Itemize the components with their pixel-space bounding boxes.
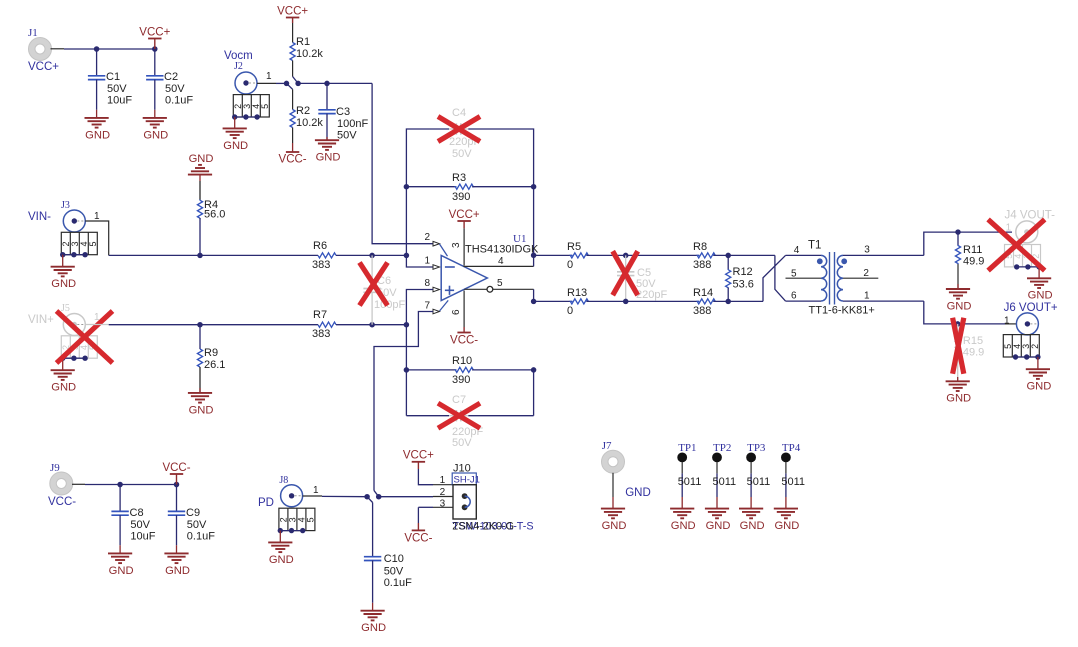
svg-text:3: 3 (451, 242, 462, 248)
svg-text:VCC-: VCC- (404, 532, 432, 544)
svg-text:R15: R15 (963, 335, 983, 347)
svg-text:VCC+: VCC+ (277, 5, 308, 17)
svg-text:0.1uF: 0.1uF (165, 95, 193, 107)
svg-text:4: 4 (794, 245, 800, 256)
wire J5 pin1 grey (85, 312, 108, 325)
J2 pins 2-4 junction dots (232, 114, 260, 119)
node junction C6 bottom (369, 322, 375, 328)
svg-text:R12: R12 (733, 266, 753, 278)
svg-text:GND: GND (1026, 381, 1051, 393)
svg-text:390: 390 (452, 374, 470, 386)
wire VCC+ to J10 pin1 (418, 469, 453, 485)
svg-text:VIN-: VIN- (28, 211, 51, 223)
svg-text:GND: GND (109, 565, 134, 577)
wire jog to pin1 (406, 255, 433, 267)
capacitor C4 not populated (449, 107, 480, 160)
svg-text:GND: GND (625, 487, 651, 499)
svg-text:GND: GND (143, 129, 168, 141)
ground below J6 (1026, 357, 1052, 393)
power VCC+ above U1 pin3 (449, 209, 480, 229)
resistor R6 383 (312, 240, 336, 271)
node junction C5 bottom (623, 299, 629, 305)
svg-text:VCC+: VCC+ (449, 209, 480, 221)
red X over C5 (613, 251, 638, 295)
ground below R15 (946, 377, 972, 405)
node junction R4 on VIN- bus (197, 253, 203, 259)
svg-text:C9: C9 (186, 507, 200, 519)
svg-text:C4: C4 (452, 107, 466, 119)
ground below TP1 (670, 497, 696, 532)
svg-text:J6 VOUT+: J6 VOUT+ (1004, 302, 1058, 314)
wire C4 loop (406, 129, 533, 187)
svg-text:56.0: 56.0 (204, 209, 225, 221)
resistor R1 10.2k (290, 23, 323, 77)
svg-text:GND: GND (774, 520, 799, 532)
svg-text:R2: R2 (296, 105, 310, 117)
U1 pin 4 output (464, 255, 534, 267)
wire C7 loop (406, 367, 536, 416)
svg-text:49.9: 49.9 (963, 347, 984, 359)
ground below C8 (108, 545, 134, 577)
svg-text:GND: GND (269, 554, 294, 566)
capacitor C8 (111, 485, 155, 546)
wire PD bus to J10 pin2 (379, 496, 453, 498)
resistor R13 0 (567, 287, 588, 317)
svg-text:5011: 5011 (747, 476, 771, 488)
J2 pin box (233, 95, 270, 117)
J8 pin box (278, 508, 315, 530)
test point TP2 (712, 442, 736, 497)
svg-text:10.2k: 10.2k (296, 48, 323, 60)
J5 pins 2-4 junction dots (60, 356, 88, 361)
wire J8 pin1 (303, 485, 368, 497)
wire R13 to C5 (586, 300, 699, 302)
svg-text:J3: J3 (61, 200, 70, 211)
wire Vocm node to C3 (298, 82, 372, 84)
svg-text:THS4130IDGK: THS4130IDGK (465, 244, 539, 256)
svg-text:GND: GND (51, 278, 76, 290)
svg-text:R5: R5 (567, 241, 581, 253)
wire J9 to VCC- node (72, 483, 177, 485)
U1 pin 8 arrow (424, 278, 439, 292)
svg-text:GND: GND (946, 393, 971, 405)
svg-text:GND: GND (223, 140, 248, 152)
svg-text:R7: R7 (313, 309, 327, 321)
svg-text:J1: J1 (28, 27, 38, 39)
test point TP1 (677, 442, 701, 497)
wire J6 pins to ground (1016, 356, 1038, 358)
svg-text:5011: 5011 (678, 476, 702, 488)
svg-text:1: 1 (440, 475, 446, 486)
svg-text:GND: GND (1028, 290, 1053, 302)
svg-text:VCC+: VCC+ (403, 450, 434, 462)
J3 pin box (61, 232, 98, 254)
svg-text:5011: 5011 (713, 476, 737, 488)
svg-text:GND: GND (602, 520, 627, 532)
wire VCC- to J10 pin3 (418, 507, 453, 523)
wire R6 to op-amp (336, 254, 406, 256)
wire cross top to T1 pin6 (775, 255, 786, 301)
resistor R8 388 (693, 241, 715, 271)
svg-text:5: 5 (305, 517, 315, 522)
J8 pins 2-4 junction dots (278, 528, 306, 533)
wire R3 loop left (404, 184, 410, 255)
svg-text:VCC-: VCC- (450, 335, 478, 347)
connector J10 header (440, 463, 480, 520)
U1 pin 3 (451, 228, 464, 265)
svg-text:GND: GND (947, 300, 972, 312)
red X over J4 (988, 219, 1045, 270)
svg-text:50V: 50V (130, 519, 150, 531)
svg-text:49.9: 49.9 (963, 256, 984, 268)
svg-text:3: 3 (440, 499, 446, 510)
connector J5 VIN+ not populated (28, 303, 85, 336)
svg-text:VCC-: VCC- (162, 462, 190, 474)
wire Vocm to op-amp pin2 (372, 83, 433, 243)
svg-text:R11: R11 (963, 244, 982, 256)
wire output- to R13 (534, 300, 573, 302)
svg-text:50V: 50V (165, 83, 185, 95)
wire R5 to C5 (586, 254, 699, 256)
svg-text:C2: C2 (164, 71, 178, 83)
svg-text:10.2k: 10.2k (296, 117, 323, 129)
svg-text:100pF: 100pF (374, 299, 405, 311)
svg-text:GND: GND (51, 382, 76, 394)
ground below C9 (164, 545, 190, 577)
wire J5 pins to ground (63, 357, 85, 359)
node junction op-amp pin1 net (404, 253, 410, 259)
connector J7 (602, 440, 651, 499)
red X over J5 (57, 311, 113, 363)
svg-text:GND: GND (189, 404, 214, 416)
resistor R7 383 (312, 309, 336, 340)
svg-text:J5: J5 (61, 303, 70, 314)
svg-text:GND: GND (316, 152, 341, 164)
J6 pin box (1003, 335, 1040, 357)
node junction C5 top (623, 253, 629, 259)
power VCC+ at C2 (139, 26, 170, 49)
svg-text:T1: T1 (808, 240, 821, 252)
svg-text:GND: GND (85, 129, 110, 141)
svg-text:6: 6 (791, 291, 797, 302)
svg-text:1: 1 (424, 256, 430, 267)
svg-text:383: 383 (312, 328, 330, 340)
svg-text:5: 5 (88, 241, 98, 246)
svg-text:388: 388 (693, 259, 711, 271)
svg-text:VIN+: VIN+ (28, 314, 54, 326)
power VCC- at J10 (404, 523, 432, 544)
svg-text:VCC-: VCC- (48, 496, 76, 508)
svg-text:383: 383 (312, 259, 330, 271)
capacitor C7 not populated (449, 394, 483, 449)
svg-text:3: 3 (864, 245, 870, 256)
connector J2 Vocm (224, 50, 257, 94)
PD net jog junction (364, 491, 381, 503)
ground below J7 (601, 497, 627, 532)
connector J6 VOUT+ (1004, 302, 1058, 335)
svg-text:SH-J1: SH-J1 (454, 475, 480, 486)
node junction pin8 bus (404, 322, 410, 328)
ground below TP3 (739, 497, 765, 532)
svg-text:50V: 50V (452, 148, 472, 160)
resistor R15 not populated (955, 324, 984, 381)
red X over R15 (953, 318, 964, 374)
resistor R11 49.9 (955, 232, 984, 289)
svg-text:TT1-6-KK81+: TT1-6-KK81+ (809, 305, 875, 317)
wire R14 to R12 (713, 300, 763, 302)
svg-text:50V: 50V (337, 130, 357, 142)
svg-text:0.1uF: 0.1uF (384, 577, 412, 589)
wire J3 pins to ground (63, 254, 85, 256)
wire VIN+ bus (109, 324, 318, 326)
node junction output- R10 (531, 299, 537, 305)
J4 pin box not populated (1004, 245, 1041, 267)
ground below R11 (946, 284, 972, 312)
svg-text:J7: J7 (602, 440, 612, 452)
svg-text:5: 5 (497, 278, 503, 289)
ground below J5 (51, 358, 77, 393)
wire J8 pins to ground (280, 530, 302, 532)
svg-text:10uF: 10uF (130, 531, 155, 543)
svg-text:2SN4-2K0-G: 2SN4-2K0-G (452, 521, 514, 533)
node junction output+ R3 (531, 253, 537, 258)
wire cross bottom to T1 pin4 (763, 255, 786, 301)
power VCC- below R2 (279, 143, 307, 165)
connector J4 VOUT- not populated (1005, 209, 1056, 243)
svg-text:J8: J8 (279, 475, 288, 486)
svg-text:TP3: TP3 (747, 442, 766, 454)
ground below C3 (315, 137, 341, 164)
svg-text:0.1uF: 0.1uF (187, 531, 215, 543)
node junction R12 bottom (725, 299, 731, 305)
ground below TP2 (705, 497, 731, 532)
svg-text:220pF: 220pF (636, 289, 667, 301)
node junction C1 (94, 46, 100, 52)
svg-text:7: 7 (424, 301, 430, 312)
wire T1 pin3 to R11 node (924, 232, 1012, 255)
test point TP3 (746, 442, 770, 497)
node junction C3 (324, 81, 330, 87)
power VCC- at C9 (162, 462, 190, 485)
svg-text:5: 5 (791, 269, 797, 280)
U1 pin 1 arrow (424, 256, 439, 270)
svg-text:4: 4 (498, 256, 504, 267)
svg-text:0: 0 (567, 259, 573, 271)
svg-text:J2: J2 (234, 61, 243, 72)
wire R8 to R12 (713, 254, 775, 256)
connector J1 (28, 27, 59, 73)
ground above R4 (188, 153, 214, 181)
wire op-amp pin8 to VIN+ bus (406, 290, 433, 325)
svg-text:5011: 5011 (781, 476, 805, 488)
svg-text:PD: PD (258, 497, 274, 509)
svg-text:R14: R14 (693, 287, 713, 299)
svg-text:C10: C10 (384, 553, 404, 565)
svg-text:J9: J9 (50, 462, 60, 474)
wire VIN- bus (109, 254, 318, 256)
U1 pin 6 (451, 291, 464, 328)
ground below C1 (85, 110, 111, 142)
svg-text:50V: 50V (187, 519, 207, 531)
wire J2 pins to ground (235, 116, 257, 118)
svg-text:TP2: TP2 (713, 442, 731, 454)
U1 pin 5 output with bubble (464, 278, 533, 301)
svg-text:50V: 50V (384, 566, 404, 578)
svg-text:TP4: TP4 (782, 442, 801, 454)
U1 pin 2 arrow (424, 232, 447, 256)
J4 pins junction dots (1014, 264, 1042, 269)
svg-text:R6: R6 (313, 240, 327, 252)
red X over C7 (438, 403, 480, 428)
svg-text:0: 0 (567, 305, 573, 317)
wire J1 to VCC+ node (51, 48, 155, 50)
svg-text:388: 388 (693, 305, 711, 317)
svg-text:TP1: TP1 (678, 442, 696, 454)
svg-text:2: 2 (1030, 344, 1040, 349)
wire J4 pins to ground (1017, 266, 1039, 268)
ground below J4 (1027, 267, 1053, 302)
svg-text:C3: C3 (336, 106, 350, 118)
svg-text:5: 5 (260, 104, 270, 109)
ground below J8 (268, 531, 294, 566)
wire J2 pin1 (257, 71, 287, 83)
transformer T1 (786, 240, 924, 317)
svg-text:1: 1 (1006, 222, 1012, 233)
svg-text:J4 VOUT-: J4 VOUT- (1005, 209, 1056, 221)
svg-text:GND: GND (740, 520, 765, 532)
J5 pin box not populated (61, 336, 98, 358)
svg-text:GND: GND (189, 153, 214, 165)
connector J9 (48, 462, 76, 508)
svg-text:1: 1 (313, 485, 319, 496)
svg-text:GND: GND (361, 622, 386, 634)
node junction C8 (117, 482, 123, 488)
svg-text:2: 2 (440, 487, 446, 498)
wire J3 pin1 to VIN- bus (85, 211, 108, 255)
capacitor C1 (88, 49, 132, 110)
svg-text:R1: R1 (296, 36, 310, 48)
power VCC- below U1 pin6 (450, 327, 478, 347)
svg-text:50V: 50V (452, 437, 472, 449)
svg-text:GND: GND (165, 565, 190, 577)
svg-text:1: 1 (1004, 315, 1010, 326)
ground below R9 (188, 388, 214, 416)
capacitor C9 (168, 485, 215, 546)
power VCC+ above R1 (277, 5, 308, 23)
svg-text:R9: R9 (204, 347, 218, 359)
ground below J2 (223, 117, 249, 152)
resistor R3 390 (406, 172, 533, 203)
resistor R4 56.0 (197, 181, 225, 255)
resistor R12 53.6 (726, 255, 754, 301)
svg-text:100nF: 100nF (337, 118, 368, 130)
node junction C6 top (369, 253, 375, 259)
connector J8 PD (258, 475, 303, 509)
svg-text:53.6: 53.6 (733, 279, 754, 291)
capacitor C3 100nF (318, 83, 368, 141)
J3 pins 2-4 junction dots (60, 252, 88, 257)
svg-text:R13: R13 (567, 287, 587, 299)
test point TP4 (781, 442, 805, 497)
node junction R12 top (725, 253, 731, 259)
capacitor C2 (146, 49, 193, 110)
ground below J3 (51, 255, 77, 290)
svg-text:8: 8 (424, 278, 430, 289)
wire op-amp pin7 to PD net (374, 312, 433, 491)
red X over C4 (438, 117, 480, 142)
resistor R14 388 (693, 287, 715, 317)
capacitor C6 not populated (363, 255, 405, 324)
resistor R9 26.1 (197, 325, 225, 393)
svg-text:10uF: 10uF (107, 95, 132, 107)
ground below C2 (143, 110, 169, 142)
capacitor C10 (364, 503, 412, 603)
svg-text:VCC-: VCC- (279, 153, 307, 165)
ground below C10 (361, 603, 387, 634)
svg-text:390: 390 (452, 191, 470, 203)
wire R7 to op-amp (336, 324, 406, 326)
J10 part number overlapping text (452, 521, 533, 533)
capacitor C5 not populated (617, 255, 667, 301)
svg-text:C1: C1 (106, 71, 120, 83)
svg-text:1: 1 (864, 291, 870, 302)
svg-text:6: 6 (451, 309, 462, 315)
Vocm node jog (284, 77, 301, 90)
ground below TP4 (774, 497, 800, 532)
node junction R11 (955, 229, 961, 235)
U1 pin 7 arrow (424, 300, 448, 313)
wire T1 pin1 to J6 (924, 301, 1016, 324)
svg-text:VCC+: VCC+ (28, 61, 59, 73)
wire R10 loop left (404, 325, 410, 416)
svg-text:VCC+: VCC+ (139, 26, 170, 38)
node junction R15 (955, 321, 961, 327)
svg-text:1: 1 (266, 71, 272, 82)
wire output+ to R5 (534, 254, 573, 256)
svg-text:1: 1 (94, 211, 100, 222)
svg-text:1: 1 (94, 312, 100, 323)
svg-text:R3: R3 (452, 172, 466, 184)
red X over C6 (360, 263, 388, 306)
connector J3 VIN- (28, 200, 85, 232)
power VCC+ at J10 (403, 450, 434, 469)
svg-text:C7: C7 (452, 394, 466, 406)
svg-text:R8: R8 (693, 241, 707, 253)
svg-text:50V: 50V (107, 83, 127, 95)
resistor R5 0 (567, 241, 588, 271)
wire R3 loop right (531, 184, 537, 255)
svg-text:2: 2 (424, 232, 430, 243)
svg-text:GND: GND (706, 520, 731, 532)
J6 pins junction dots (1013, 354, 1041, 359)
node junction C9 (174, 482, 180, 488)
svg-text:R10: R10 (452, 355, 472, 367)
op-amp U1 THS4130IDGK (441, 233, 539, 301)
svg-text:2: 2 (863, 268, 869, 279)
svg-text:GND: GND (671, 520, 696, 532)
node junction C2 (152, 46, 158, 52)
svg-text:C8: C8 (130, 507, 144, 519)
resistor R10 390 (406, 355, 533, 386)
resistor R2 10.2k (290, 89, 323, 143)
node junction R9 (197, 322, 203, 328)
svg-text:26.1: 26.1 (204, 359, 225, 371)
